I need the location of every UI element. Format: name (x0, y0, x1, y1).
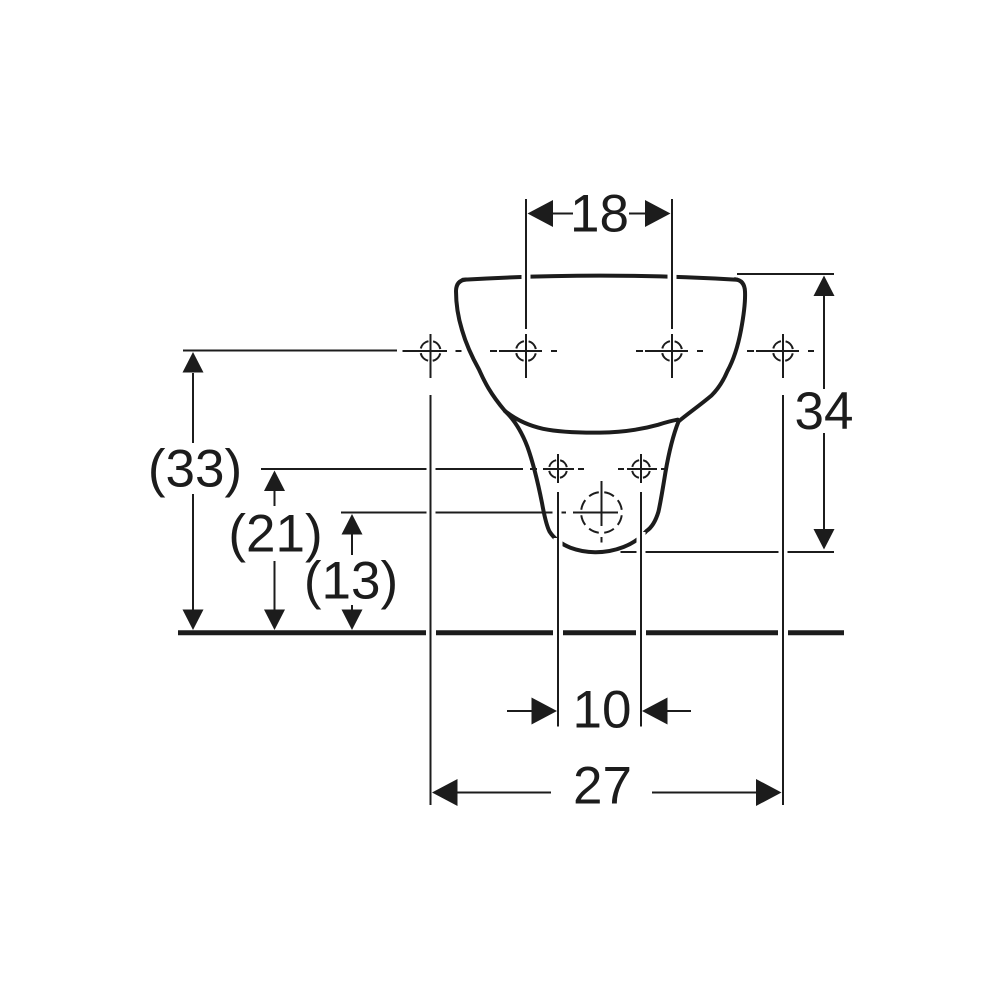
svg-text:27: 27 (573, 757, 632, 816)
svg-text:(33): (33) (148, 440, 242, 499)
svg-text:34: 34 (795, 382, 854, 441)
svg-text:(13): (13) (304, 552, 398, 611)
svg-text:18: 18 (570, 185, 629, 244)
svg-text:10: 10 (573, 681, 632, 740)
